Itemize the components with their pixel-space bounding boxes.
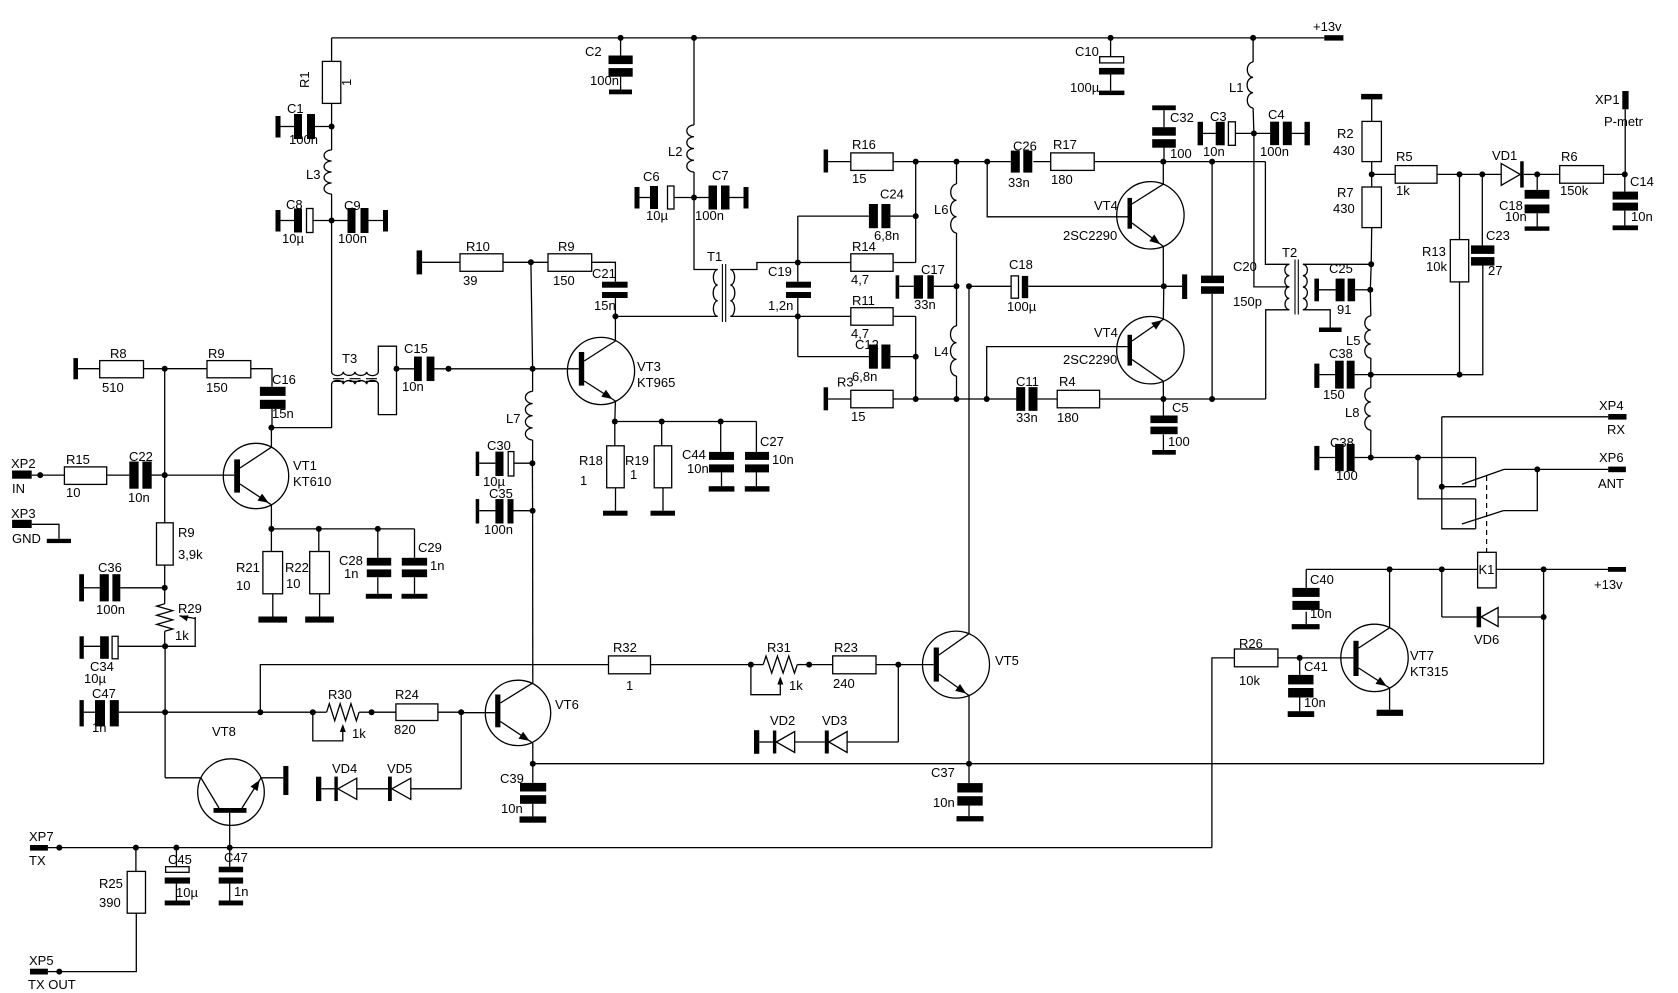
svg-text:C40: C40 — [1310, 572, 1334, 587]
svg-text:C10: C10 — [1075, 44, 1099, 59]
junction R3/C12 node — [913, 396, 919, 402]
diode VD4 — [316, 761, 357, 801]
svg-text:1: 1 — [339, 79, 354, 86]
svg-text:VD2: VD2 — [770, 713, 795, 728]
transistor VT4 (upper) 2SC2290 — [987, 162, 1184, 287]
resistor R3 15 — [824, 375, 1017, 425]
capacitor C32 100 — [1152, 105, 1194, 161]
junction R32 branch node — [257, 709, 263, 715]
svg-text:15n: 15n — [272, 406, 294, 421]
terminal XP4 RX — [1599, 398, 1627, 437]
resistor R14 4,7 — [798, 239, 916, 287]
svg-text:33n: 33n — [1016, 410, 1038, 425]
capacitor C4 100n — [1254, 107, 1310, 159]
svg-text:C19: C19 — [768, 264, 792, 279]
trimmer R30 1k — [313, 687, 372, 741]
junction R6/C14/XP1 node — [1622, 171, 1628, 177]
junction VT4a base tap node — [984, 159, 990, 165]
svg-text:3,9k: 3,9k — [178, 547, 203, 562]
svg-text:L3: L3 — [306, 167, 320, 182]
svg-text:C5: C5 — [1172, 400, 1189, 415]
svg-text:KT610: KT610 — [293, 474, 331, 489]
svg-text:100µ: 100µ — [1007, 299, 1037, 314]
svg-text:C47: C47 — [92, 686, 116, 701]
wire VT8 collector drop — [164, 712, 166, 778]
capacitor C14 10n — [1613, 174, 1654, 230]
svg-text:100µ: 100µ — [1070, 80, 1100, 95]
wire XP6 ANT line — [1537, 468, 1608, 470]
svg-text:P-metr: P-metr — [1604, 114, 1644, 129]
resistor R26 10k — [1212, 636, 1300, 848]
svg-text:VT1: VT1 — [293, 458, 317, 473]
inductor L5 — [1346, 290, 1371, 375]
svg-text:KT315: KT315 — [1410, 664, 1448, 679]
junction relay input node — [1415, 455, 1421, 461]
svg-text:L8: L8 — [1345, 405, 1359, 420]
svg-text:1n: 1n — [92, 720, 106, 735]
svg-text:10k: 10k — [1239, 673, 1260, 688]
svg-text:VD3: VD3 — [822, 713, 847, 728]
junction C47/VT8 collector node — [162, 709, 168, 715]
transistor VT4 (lower) 2SC2290 — [987, 286, 1184, 399]
wire C17 row to C18 — [969, 285, 1011, 287]
svg-text:R9: R9 — [558, 239, 575, 254]
resistor R6 150k — [1537, 149, 1625, 198]
svg-text:XP2: XP2 — [11, 456, 36, 471]
svg-text:VT4: VT4 — [1094, 198, 1118, 213]
svg-text:C47: C47 — [224, 850, 248, 865]
wire R11/C12 junction column — [915, 316, 917, 399]
junction R16/R14 node — [913, 159, 919, 165]
svg-text:R22: R22 — [285, 560, 309, 575]
wire T2 secondary top lead to R7 node — [1303, 263, 1371, 265]
wire +13v node down to RX/TX switch row — [1543, 569, 1545, 763]
svg-text:10µ: 10µ — [282, 231, 304, 246]
inductor L6 — [934, 162, 957, 287]
junction VT6 emitter / C39 node — [530, 761, 536, 767]
capacitor C23 27 — [1460, 174, 1510, 374]
svg-text:C35: C35 — [489, 486, 513, 501]
relay K1 lower moving contact — [1462, 511, 1504, 524]
resistor R11 4,7 — [798, 293, 916, 341]
svg-text:1: 1 — [580, 473, 587, 488]
svg-text:C2: C2 — [585, 44, 602, 59]
wire VT6 collector up to C35 node — [532, 511, 534, 683]
wire XP6 to lower contact — [1503, 469, 1537, 510]
capacitor C5 100 — [1150, 399, 1189, 455]
ground bar XP3 — [47, 539, 71, 543]
wire VD3 up to R23 node — [897, 665, 899, 742]
svg-text:R9: R9 — [208, 346, 225, 361]
junction C10 tap on +13v rail — [1108, 35, 1114, 41]
svg-text:VT6: VT6 — [555, 697, 579, 712]
junction C20 bottom node — [1209, 396, 1215, 402]
svg-text:TX OUT: TX OUT — [28, 977, 76, 992]
svg-text:XP3: XP3 — [11, 506, 36, 521]
svg-text:XP5: XP5 — [29, 953, 54, 968]
junction C38b node — [1368, 455, 1374, 461]
svg-text:1: 1 — [626, 678, 633, 693]
junction R13/C23 bottom node — [1457, 372, 1463, 378]
svg-text:R32: R32 — [613, 640, 637, 655]
svg-text:10n: 10n — [687, 461, 709, 476]
svg-text:C23: C23 — [1486, 228, 1510, 243]
junction C38a node — [1368, 372, 1374, 378]
svg-text:L7: L7 — [506, 411, 520, 426]
wire R14/C24 junction column — [915, 162, 917, 263]
capacitor C47 1n (TX) — [219, 848, 249, 901]
wire VT5 collector column — [968, 286, 970, 633]
svg-text:100n: 100n — [289, 132, 318, 147]
capacitor C27 10n — [745, 422, 794, 487]
svg-text:39: 39 — [463, 273, 477, 288]
svg-text:C30: C30 — [487, 438, 511, 453]
junction relay common upper node — [1439, 484, 1445, 490]
svg-text:R5: R5 — [1396, 149, 1413, 164]
junction XP6 node — [1534, 466, 1540, 472]
svg-text:XP1: XP1 — [1595, 92, 1620, 107]
svg-text:C44: C44 — [682, 447, 706, 462]
wire base node to VT1 — [165, 474, 235, 476]
svg-text:C39: C39 — [500, 771, 524, 786]
junction R8/R9 node — [162, 366, 168, 372]
svg-text:ANT: ANT — [1598, 476, 1624, 491]
svg-text:150: 150 — [1323, 387, 1345, 402]
wire relay lower throw bracket — [1475, 499, 1477, 529]
junction VT5 collector tap node — [966, 283, 972, 289]
junction C36/R29 node — [162, 585, 168, 591]
svg-text:10n: 10n — [1631, 209, 1653, 224]
transistor VT3 KT965 — [567, 316, 675, 421]
wire T1 secondary bottom lead to C19 bottom node — [730, 315, 798, 317]
svg-text:R31: R31 — [767, 640, 791, 655]
capacitor C40 10n — [1292, 569, 1334, 629]
svg-text:33n: 33n — [914, 297, 936, 312]
svg-text:150: 150 — [553, 273, 575, 288]
inductor L3 — [306, 127, 332, 221]
capacitor C17 33n — [896, 262, 957, 312]
svg-text:R23: R23 — [834, 640, 858, 655]
svg-text:150k: 150k — [1560, 183, 1589, 198]
wire T2 secondary bottom lead to ground — [1303, 310, 1330, 328]
trimmer R31 1k — [751, 640, 809, 695]
svg-text:33n: 33n — [1008, 175, 1030, 190]
svg-text:C16: C16 — [272, 372, 296, 387]
wire XP4 RX line — [1442, 417, 1608, 529]
svg-text:100n: 100n — [96, 602, 125, 617]
resistor R9 150 (driver bias) — [531, 239, 592, 288]
junction VT4a collector node — [1160, 159, 1166, 165]
ground bar R21 — [258, 617, 287, 623]
junction XP2 node — [37, 472, 43, 478]
inductor L1 — [1229, 38, 1254, 133]
wire VT4b collector row to T2 bottom — [1266, 310, 1290, 399]
svg-text:100n: 100n — [484, 522, 513, 537]
wire R10 node down to L7 — [531, 262, 533, 369]
wire +13v top rail — [332, 37, 1325, 39]
resistor R9 3,9k — [157, 523, 204, 588]
junction C12 right node — [913, 354, 919, 360]
junction C44 node — [718, 419, 724, 425]
svg-text:100n: 100n — [338, 231, 367, 246]
wire VD5 up to VT6 base node — [460, 712, 462, 789]
inductor L2 — [668, 38, 694, 198]
svg-text:6,8n: 6,8n — [852, 369, 877, 384]
wire VT1 emitter row — [271, 528, 414, 530]
svg-text:C24: C24 — [880, 187, 904, 202]
svg-text:R30: R30 — [328, 687, 352, 702]
junction C15 output node — [446, 366, 452, 372]
capacitor C47 1n (input) — [80, 686, 166, 735]
svg-text:R24: R24 — [395, 687, 419, 702]
svg-text:1n: 1n — [430, 558, 444, 573]
svg-text:10n: 10n — [1310, 606, 1332, 621]
capacitor C38 100 — [1314, 435, 1371, 483]
svg-text:C32: C32 — [1170, 110, 1194, 125]
svg-text:L6: L6 — [934, 202, 948, 217]
svg-text:91: 91 — [1337, 302, 1351, 317]
svg-text:L2: L2 — [668, 144, 682, 159]
svg-text:C8: C8 — [286, 197, 303, 212]
terminal bar above R2 — [1361, 94, 1382, 100]
capacitor C3 10n (polarized) — [1198, 109, 1254, 159]
junction C16/VT1 collector/T3 node — [268, 425, 274, 431]
svg-text:R7: R7 — [1337, 185, 1354, 200]
capacitor C45 10u (polarized) — [165, 848, 199, 901]
terminal bar emitter row — [1182, 274, 1187, 299]
transistor VT5 — [923, 631, 1019, 764]
svg-text:C37: C37 — [931, 765, 955, 780]
ground bar R22 — [305, 617, 334, 623]
svg-text:C7: C7 — [712, 168, 729, 183]
junction VT7 collector node — [1387, 566, 1393, 572]
capacitor C11 33n — [1016, 374, 1039, 425]
svg-text:C6: C6 — [643, 169, 660, 184]
wire antenna node row — [1371, 457, 1476, 459]
svg-text:10: 10 — [236, 578, 250, 593]
svg-text:240: 240 — [833, 676, 855, 691]
ground bar T2 secondary — [1319, 328, 1342, 333]
svg-text:C27: C27 — [760, 434, 784, 449]
junction VT8 base node — [227, 845, 233, 851]
capacitor C44 10n — [682, 422, 734, 487]
junction C35 node — [530, 508, 536, 514]
svg-text:100n: 100n — [590, 73, 619, 88]
wire VT4a collector row to T2 top — [1265, 162, 1289, 265]
wire R8 column down to C36/R29 — [164, 369, 166, 523]
junction L7 top tap node — [530, 366, 536, 372]
svg-text:100: 100 — [1336, 468, 1358, 483]
resistor R13 10k — [1422, 174, 1469, 374]
junction C25 right node — [1367, 287, 1373, 293]
svg-text:R26: R26 — [1239, 636, 1263, 651]
svg-text:1n: 1n — [344, 566, 358, 581]
wire C16 node to T3 primary bottom — [271, 384, 331, 428]
junction C45 node — [173, 845, 179, 851]
svg-text:VT7: VT7 — [1410, 648, 1434, 663]
svg-text:1k: 1k — [1396, 183, 1410, 198]
terminal bar VT8 emitter — [283, 766, 288, 795]
capacitor C28 1n — [339, 529, 391, 594]
junction R18 node — [612, 419, 618, 425]
svg-text:R18: R18 — [579, 453, 603, 468]
capacitor C41 10n — [1288, 658, 1328, 717]
svg-text:10n: 10n — [402, 379, 424, 394]
svg-text:C3: C3 — [1210, 109, 1227, 124]
ground bar C47 — [219, 901, 243, 906]
transformer T1 — [707, 249, 735, 322]
junction C41/VT7 base node — [1297, 655, 1303, 661]
svg-text:C45: C45 — [168, 852, 192, 867]
junction VT4b base tap node — [984, 396, 990, 402]
capacitor C8 10u (polarized) — [276, 197, 332, 246]
junction R5/R13 node — [1457, 171, 1463, 177]
transistor VT1 KT610 — [223, 428, 331, 529]
svg-text:C29: C29 — [418, 540, 442, 555]
capacitor C19 1,2n — [768, 263, 811, 317]
resistor R25 390 — [59, 848, 145, 972]
resistor R32 1 — [609, 640, 751, 693]
trimmer R29 1k — [157, 588, 202, 647]
resistor R9 150 — [206, 346, 272, 395]
capacitor C39 10n — [500, 764, 546, 823]
svg-text:C11: C11 — [1016, 374, 1039, 389]
wire relay upper throw bracket — [1475, 458, 1477, 487]
junction R22 node — [316, 526, 322, 532]
junction R19 node — [659, 419, 665, 425]
diode VD5 — [357, 761, 461, 801]
wire C30 node to C35 node — [531, 463, 533, 511]
transformer T2 — [1282, 245, 1307, 315]
junction C19 top node — [795, 260, 801, 266]
svg-text:510: 510 — [102, 380, 124, 395]
junction node L2/C6/C7/T1 — [691, 195, 697, 201]
capacitor C26 33n — [1008, 139, 1037, 191]
svg-text:R9: R9 — [178, 525, 195, 540]
svg-text:VT4: VT4 — [1094, 325, 1118, 340]
resistor R22 10 — [285, 529, 329, 617]
resistor R4 180 — [1036, 374, 1266, 425]
inductor L8 — [1345, 375, 1371, 458]
junction node L3/C8/C9 — [329, 218, 335, 224]
svg-text:430: 430 — [1333, 201, 1355, 216]
svg-text:10n: 10n — [501, 801, 523, 816]
svg-text:R14: R14 — [852, 239, 876, 254]
resistor R16 15 — [824, 137, 1011, 186]
junction VD6 anode node — [1541, 614, 1547, 620]
svg-text:390: 390 — [99, 895, 121, 910]
svg-text:10n: 10n — [933, 795, 955, 810]
svg-text:R1: R1 — [297, 71, 312, 88]
wire relay lower throw branch — [1418, 458, 1476, 499]
svg-text:R17: R17 — [1053, 137, 1077, 152]
svg-text:C38: C38 — [1330, 435, 1354, 450]
svg-text:1,2n: 1,2n — [768, 298, 793, 313]
svg-text:100n: 100n — [1260, 144, 1289, 159]
junction R2/R7/R5 node — [1369, 171, 1375, 177]
junction VD3 tap node — [895, 662, 901, 668]
resistor R21 10 — [236, 529, 283, 617]
svg-text:2SC2290: 2SC2290 — [1063, 228, 1117, 243]
junction node C21/T1/VT3 collector — [612, 313, 618, 319]
svg-text:VT8: VT8 — [212, 724, 236, 739]
svg-text:T1: T1 — [707, 249, 722, 264]
transistor VT6 — [461, 680, 579, 764]
svg-text:4,7: 4,7 — [851, 272, 869, 287]
capacitor C30 10u (polarized) — [476, 438, 533, 489]
relay coil K1 — [1478, 552, 1497, 588]
svg-text:VD5: VD5 — [387, 761, 412, 776]
capacitor C6 10u (polarized) — [635, 169, 695, 223]
ground bar C29 — [402, 594, 428, 599]
svg-text:R13: R13 — [1422, 244, 1446, 259]
terminal XP6 ANT — [1598, 450, 1626, 491]
svg-text:430: 430 — [1333, 143, 1355, 158]
capacitor C10 100u (polarized) — [1070, 38, 1124, 95]
junction C20 top node — [1209, 159, 1215, 165]
svg-text:10n: 10n — [1304, 695, 1326, 710]
svg-text:R25: R25 — [99, 876, 123, 891]
junction C28 node — [375, 526, 381, 532]
svg-text:10µ: 10µ — [84, 671, 106, 686]
svg-text:100n: 100n — [695, 208, 724, 223]
svg-text:R6: R6 — [1561, 149, 1578, 164]
wire T1 primary bottom lead to C21 node — [615, 315, 717, 317]
svg-text:L4: L4 — [934, 344, 948, 359]
capacitor C7 100n — [694, 168, 749, 223]
terminal XP3 GND — [11, 506, 59, 546]
resistor R15 10 — [32, 452, 130, 500]
svg-text:C20: C20 — [1233, 259, 1257, 274]
junction L1 tap on +13v rail — [1250, 35, 1256, 41]
svg-text:180: 180 — [1057, 410, 1079, 425]
svg-text:XP4: XP4 — [1599, 398, 1624, 413]
relay K1 upper moving contact — [1462, 469, 1537, 484]
ground bar C45 — [165, 901, 190, 906]
svg-text:R3: R3 — [837, 375, 854, 390]
capacitor C1 100n — [276, 101, 332, 147]
terminal XP7 TX — [29, 829, 54, 868]
diode VD2 — [754, 713, 795, 754]
ground bar R19 — [651, 511, 676, 516]
svg-text:150: 150 — [206, 380, 228, 395]
capacitor C16 15n — [260, 372, 296, 428]
svg-text:R2: R2 — [1337, 126, 1354, 141]
terminal +13v (bottom right) — [1594, 567, 1626, 592]
svg-text:100: 100 — [1170, 146, 1192, 161]
svg-text:GND: GND — [12, 531, 41, 546]
junction C17/L6 node — [954, 283, 960, 289]
resistor R17 180 — [1033, 137, 1265, 187]
junction R31 left node — [748, 662, 754, 668]
svg-text:10n: 10n — [1505, 209, 1527, 224]
junction C37 node — [966, 761, 972, 767]
svg-text:1k: 1k — [789, 678, 803, 693]
diode VD3 — [795, 713, 898, 754]
svg-text:XP6: XP6 — [1599, 450, 1624, 465]
resistor R19 1 — [625, 422, 672, 511]
capacitor C9 100n — [332, 198, 388, 246]
capacitor C25 91 — [1314, 261, 1370, 317]
svg-text:TX: TX — [29, 853, 46, 868]
wire C34 node down to C47 node — [164, 646, 166, 712]
ground bar R18 — [603, 511, 628, 516]
svg-text:10µ: 10µ — [176, 885, 198, 900]
svg-text:R4: R4 — [1059, 374, 1076, 389]
svg-text:C25: C25 — [1329, 261, 1353, 276]
svg-text:IN: IN — [12, 481, 25, 496]
svg-text:R10: R10 — [466, 239, 490, 254]
